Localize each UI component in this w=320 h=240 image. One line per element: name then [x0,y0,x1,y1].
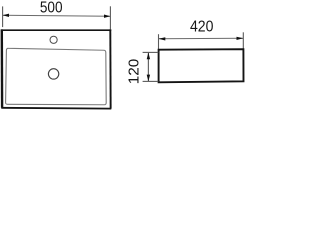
svg-text:420: 420 [190,19,214,36]
dimension line 420 [159,37,244,40]
svg-text:500: 500 [40,0,63,16]
extension line right [109,6,111,29]
arrowhead down (120) [147,75,150,82]
arrowhead up (120) [147,52,150,59]
extension line bottom (120) [143,80,159,82]
extension line left [2,6,4,27]
basin outer rim right edge [109,29,111,108]
svg-text:120: 120 [126,59,142,85]
basin inner rim [6,48,107,104]
arrowhead right (420) [237,37,244,40]
arrowhead right [104,15,110,18]
dimension line 120 [147,52,149,81]
arrowhead left (420) [159,37,166,40]
extension line top (120) [143,51,159,53]
drain hole [48,69,58,79]
dimension line 500 [3,15,111,16]
extension line right (420) [242,32,244,49]
extension line left (420) [158,34,160,49]
faucet hole [50,36,57,43]
side view body [159,49,244,82]
arrowhead left [3,14,9,17]
basin outer rim bottom edge [1,107,111,110]
basin outer rim left edge [1,29,4,107]
basin outer rim top edge [1,29,111,31]
